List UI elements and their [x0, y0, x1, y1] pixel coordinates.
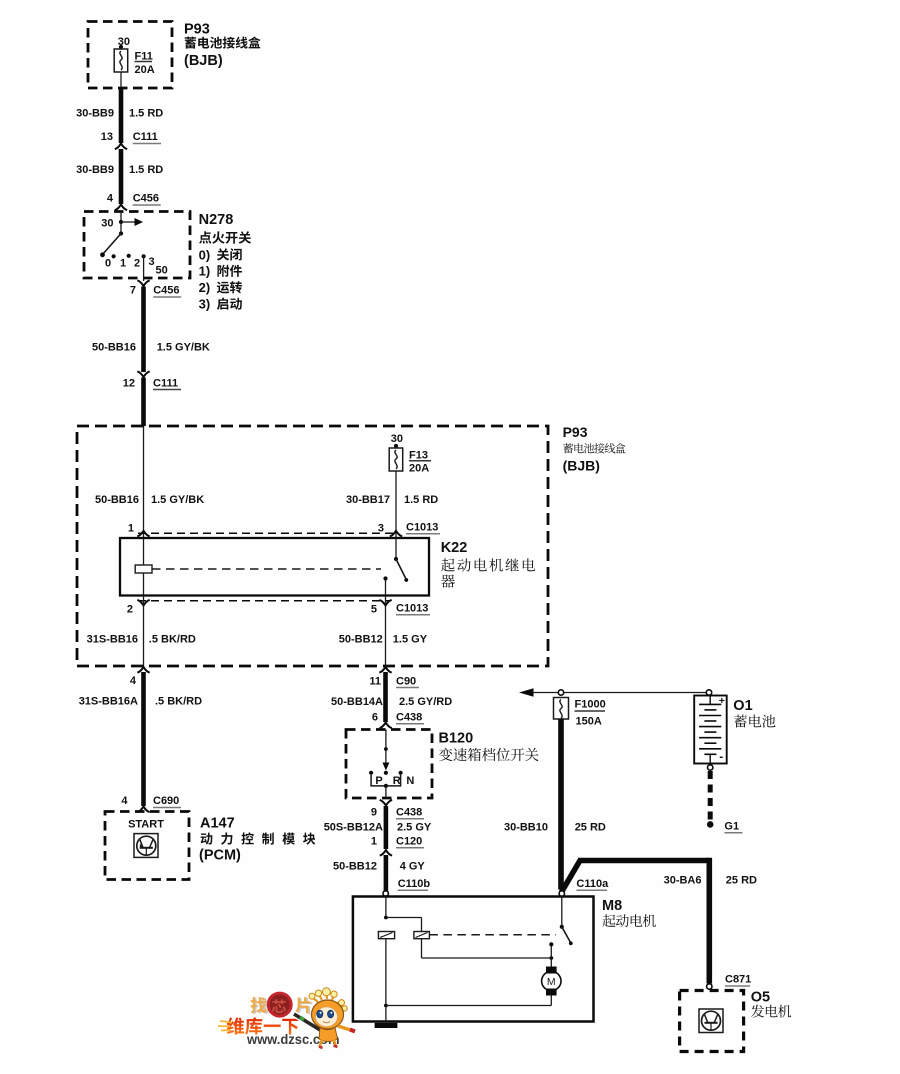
svg-text:30-BB10: 30-BB10 — [504, 822, 548, 834]
ground G1 dot — [707, 821, 714, 828]
wire 50-BB12 (thin, in box) — [385, 596, 387, 667]
svg-text:50-BB12: 50-BB12 — [333, 861, 377, 873]
svg-text:P93: P93 — [184, 22, 210, 38]
node F1000 top (open circle) — [558, 690, 563, 695]
svg-text:0): 0) — [199, 247, 211, 262]
connector line C1013 bottom (dashed) — [138, 600, 390, 602]
wire 31S-BB16A — [141, 672, 146, 806]
M8 link dashed — [429, 934, 556, 936]
svg-text:C456: C456 — [133, 193, 159, 205]
svg-text:C1013: C1013 — [406, 522, 438, 534]
wire 50-BB16 (to C111) — [141, 287, 146, 373]
svg-text:30-BA6: 30-BA6 — [664, 875, 702, 887]
svg-text:9: 9 — [371, 807, 377, 819]
watermark dzsc logo — [218, 988, 355, 1048]
svg-text:3: 3 — [378, 523, 384, 535]
component box N278 ignition switch — [84, 212, 190, 279]
relay K22 body — [120, 538, 429, 596]
svg-text:30-BB9: 30-BB9 — [76, 164, 114, 176]
component box B120 gear position switch — [346, 730, 432, 799]
wire 50-BB14A — [383, 672, 388, 722]
svg-text:6: 6 — [372, 712, 378, 724]
connector C90 pin 11 — [379, 667, 391, 673]
svg-text:M: M — [547, 976, 556, 988]
contact P — [369, 771, 373, 775]
svg-text:150A: 150A — [576, 716, 602, 728]
svg-text:0: 0 — [105, 257, 111, 269]
svg-text:G1: G1 — [724, 821, 739, 833]
M8 coil 1 (pull-in winding) — [378, 932, 394, 939]
relay K22 switch contact — [395, 538, 397, 559]
svg-text:C90: C90 — [396, 676, 416, 688]
svg-text:2.5 GY/RD: 2.5 GY/RD — [399, 696, 452, 708]
svg-text:O1: O1 — [733, 698, 752, 714]
wire 30-BA6 vertical to C871 — [706, 858, 712, 984]
svg-text:(PCM): (PCM) — [199, 848, 241, 864]
connector C111 pin 12 — [137, 371, 149, 377]
svg-text:3: 3 — [148, 256, 154, 268]
svg-text:4: 4 — [130, 675, 137, 687]
M8 switch from C110a — [561, 897, 563, 927]
svg-text:P93: P93 — [563, 424, 588, 440]
wire contact 3 to terminal 50 exit — [143, 256, 145, 281]
svg-text:12: 12 — [123, 378, 135, 390]
ground symbol M8 — [375, 1023, 398, 1028]
M8 ground bus wire — [386, 1005, 551, 1007]
svg-text:+: + — [719, 695, 725, 707]
svg-text:1.5 GY/BK: 1.5 GY/BK — [151, 494, 204, 506]
svg-text:B120: B120 — [439, 731, 474, 747]
svg-text:F11: F11 — [135, 51, 153, 63]
svg-text:K22: K22 — [441, 540, 468, 556]
fuse F13 20A — [389, 448, 403, 471]
M8 wire coil2 to motor node — [421, 939, 423, 958]
wire 30-BB9 segment 1 — [119, 88, 124, 144]
wire 50-BB16 into BJB box — [141, 378, 146, 427]
svg-text:25 RD: 25 RD — [726, 875, 757, 887]
svg-text:1.5 GY: 1.5 GY — [393, 634, 428, 646]
svg-text:C120: C120 — [396, 836, 422, 848]
connector line C1013 top (dashed) — [138, 532, 398, 534]
wire 50-BB16 inside BJB (thin) — [143, 426, 145, 538]
svg-text:1.5 GY/BK: 1.5 GY/BK — [157, 342, 210, 354]
M8 solenoid fixed contact — [550, 944, 552, 958]
svg-text:(BJB): (BJB) — [184, 53, 223, 69]
wire 50-BB12 / 4 GY — [384, 855, 389, 891]
svg-text:START: START — [128, 819, 164, 831]
svg-text:50: 50 — [156, 265, 168, 277]
svg-text:4 GY: 4 GY — [400, 861, 426, 873]
arrow right from terminal 30 — [121, 221, 135, 223]
svg-text:1.5 RD: 1.5 RD — [404, 494, 438, 506]
svg-text:1: 1 — [371, 836, 377, 848]
svg-text:2.5 GY: 2.5 GY — [397, 822, 432, 834]
svg-text:50-BB16: 50-BB16 — [92, 342, 136, 354]
motor M — [550, 958, 552, 967]
wire 30-BB10 / 25 RD — [558, 719, 564, 890]
svg-text:C690: C690 — [153, 795, 179, 807]
svg-text:.5 BK/RD: .5 BK/RD — [155, 696, 202, 708]
svg-text:C456: C456 — [153, 285, 179, 297]
wire 30-BB9 segment 2 — [119, 149, 124, 204]
svg-text:30: 30 — [101, 218, 113, 230]
svg-text:50-BB16: 50-BB16 — [95, 494, 139, 506]
connector pin 4 (box exit left) — [137, 667, 149, 673]
svg-text:20A: 20A — [409, 463, 429, 475]
node C110a (open circle) — [559, 891, 564, 896]
svg-text:C110a: C110a — [576, 878, 609, 890]
svg-text:31S-BB16A: 31S-BB16A — [79, 696, 138, 708]
svg-text:5: 5 — [371, 604, 377, 616]
svg-text:1: 1 — [120, 257, 126, 269]
component box A147 PCM — [105, 812, 189, 880]
svg-text:F1000: F1000 — [575, 699, 606, 711]
relay K22 link (dashed) — [152, 568, 381, 570]
relay K22 coil — [143, 538, 145, 565]
svg-text:2): 2) — [199, 280, 211, 295]
svg-text:50-BB12: 50-BB12 — [339, 634, 383, 646]
node C110b (open circle) — [383, 891, 388, 896]
component box M8 starter motor — [353, 897, 594, 1022]
svg-text:30-BB17: 30-BB17 — [346, 494, 390, 506]
connector C438 pin 9 — [380, 800, 392, 806]
svg-text:31S-BB16: 31S-BB16 — [87, 634, 138, 646]
svg-text:7: 7 — [130, 285, 136, 297]
svg-text:C438: C438 — [396, 712, 422, 724]
svg-text:1): 1) — [199, 264, 211, 279]
svg-text:.5 BK/RD: .5 BK/RD — [149, 634, 196, 646]
wire 31S-BB16 (thin, in box) — [143, 596, 145, 667]
svg-text:F13: F13 — [409, 450, 428, 462]
svg-text:30: 30 — [391, 433, 403, 445]
svg-text:4: 4 — [107, 193, 114, 205]
svg-text:2: 2 — [134, 257, 140, 269]
svg-text:C871: C871 — [725, 974, 751, 986]
svg-text:M8: M8 — [602, 898, 622, 914]
svg-text:13: 13 — [101, 131, 113, 143]
wire 30-BA6 horizontal — [578, 858, 709, 864]
component box O5 generator — [680, 991, 744, 1052]
svg-text:C110b: C110b — [398, 878, 431, 890]
svg-text:-: - — [719, 750, 723, 764]
fuse F11 20A — [114, 49, 128, 72]
battery O1 plates — [699, 703, 721, 705]
svg-text:11: 11 — [369, 676, 381, 688]
wire 30-BA6 diagonal — [562, 861, 581, 893]
svg-text:(BJB): (BJB) — [563, 458, 600, 474]
connector C456 pin 7 — [137, 280, 149, 286]
node terminal 30 dot (F13) — [394, 444, 398, 448]
svg-text:50-BB14A: 50-BB14A — [331, 696, 383, 708]
contact R — [399, 771, 403, 775]
svg-text:N278: N278 — [199, 212, 234, 228]
switch lever — [103, 234, 122, 255]
svg-text:30-BB9: 30-BB9 — [76, 108, 114, 120]
svg-text:C1013: C1013 — [396, 603, 428, 615]
relay K22 pin 5 / connector C1013 — [379, 600, 391, 606]
node battery top (open circle) — [706, 690, 711, 695]
relay K22 pin 2 — [137, 600, 149, 606]
node terminal 30 dot — [119, 45, 123, 49]
switch lever pivot — [120, 222, 122, 234]
M8 internals: feed from C110b — [385, 897, 387, 918]
svg-text:N: N — [406, 775, 414, 787]
ground wire dashed to G1 — [708, 771, 713, 821]
svg-text:2: 2 — [127, 604, 133, 616]
svg-text:O5: O5 — [751, 990, 770, 1006]
component box P93 battery junction box (top) — [88, 22, 172, 89]
switch position contacts 0 1 2 3 — [112, 254, 116, 258]
battery O1 — [694, 696, 727, 764]
wire F13 to relay (30-BB17) — [395, 471, 397, 538]
icon PCM module — [134, 834, 158, 858]
switch N278 internals: terminal 30 — [120, 212, 122, 223]
svg-text:4: 4 — [121, 795, 128, 807]
svg-text:1.5 RD: 1.5 RD — [129, 164, 163, 176]
svg-text:1: 1 — [128, 523, 134, 535]
svg-text:C438: C438 — [396, 807, 422, 819]
M8 coil 2 (hold-in winding) — [414, 932, 430, 939]
wire to ignition (arrow left) — [524, 692, 709, 694]
svg-text:A147: A147 — [200, 816, 235, 832]
wire 50S-BB12A — [384, 806, 389, 849]
fuse F1000 150A — [554, 698, 569, 720]
svg-text:3): 3) — [199, 297, 211, 312]
wire fuse F11 to box edge — [120, 72, 122, 88]
svg-text:C111: C111 — [133, 131, 158, 143]
node battery bottom (open circle) — [708, 765, 713, 770]
icon generator — [699, 1009, 723, 1033]
bracket P-R common — [371, 775, 401, 786]
svg-text:1.5 RD: 1.5 RD — [129, 108, 163, 120]
M8 wire coil1 down to ground bus — [385, 939, 387, 1006]
node C871 (open circle) — [707, 984, 712, 989]
svg-text:20A: 20A — [135, 64, 155, 76]
svg-text:C111: C111 — [153, 378, 178, 390]
svg-text:50S-BB12A: 50S-BB12A — [324, 822, 383, 834]
component box P93 battery junction box (BJB) large — [77, 426, 548, 666]
switch B120 internals — [385, 730, 387, 767]
svg-text:25 RD: 25 RD — [575, 822, 606, 834]
